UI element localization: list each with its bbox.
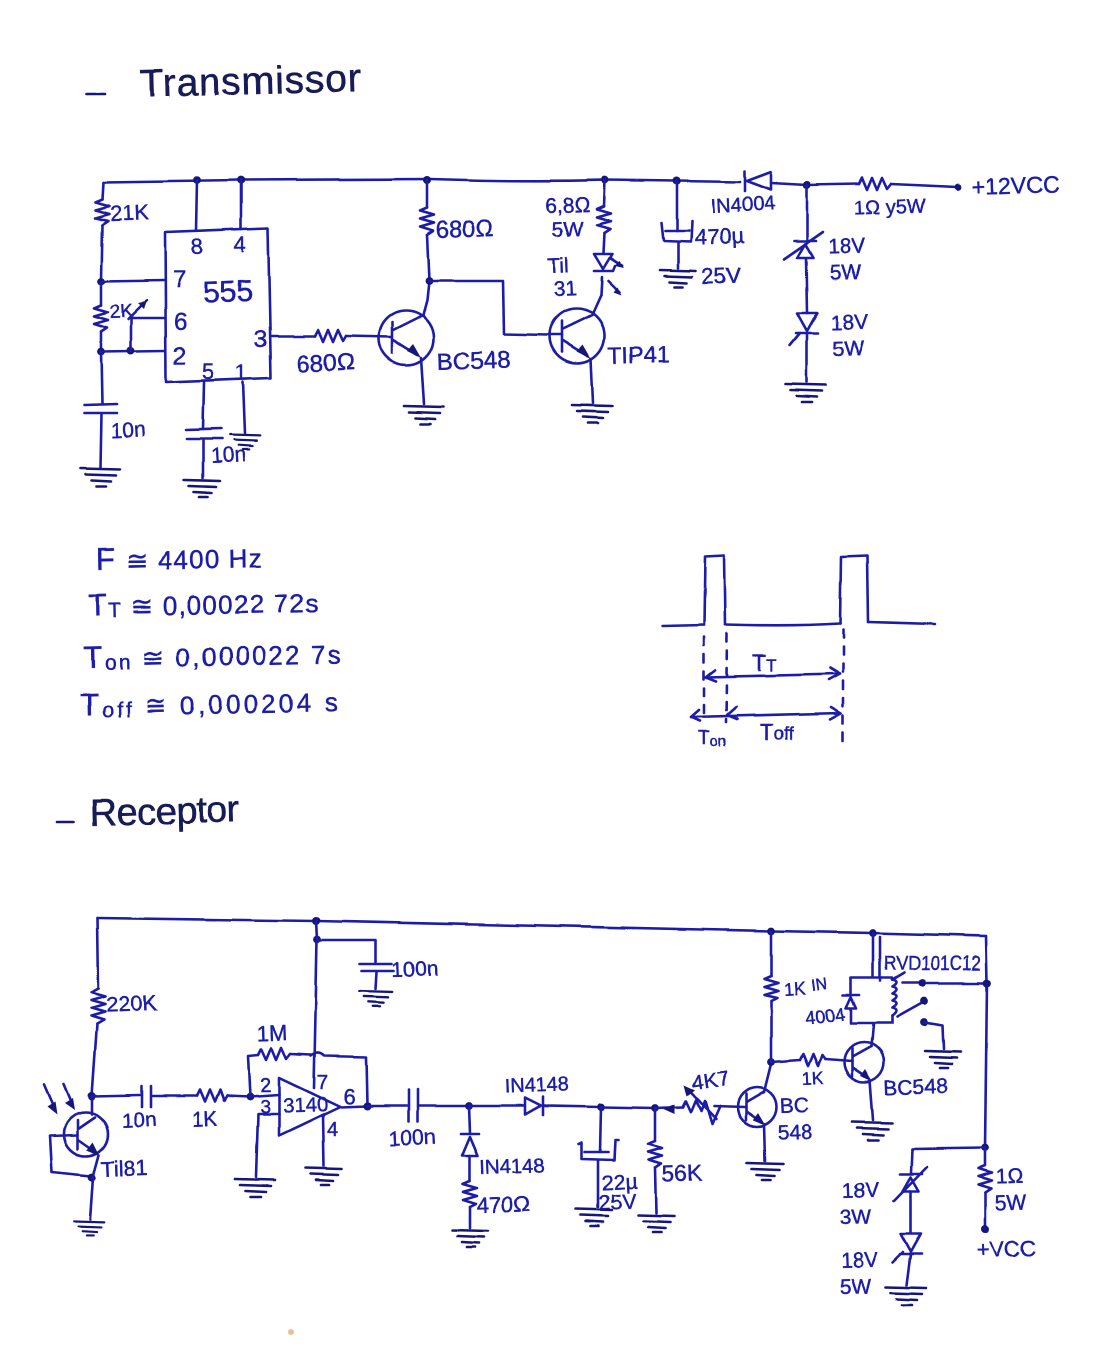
resistor R14 1K horizontal <box>800 1054 825 1066</box>
ground zener chain <box>786 384 826 402</box>
wire D3 node down <box>469 1106 470 1133</box>
wire R8 to pin2 node <box>227 1096 250 1097</box>
svg-text:10n: 10n <box>121 1108 157 1133</box>
svg-text:F ≅ 4400 Hz: F ≅ 4400 Hz <box>96 539 264 577</box>
capacitor C8 22u <box>579 1140 618 1160</box>
svg-text:18V: 18V <box>841 1179 879 1203</box>
formula F <box>96 539 264 577</box>
wire pin3 out <box>271 335 315 338</box>
label IN4148 D4 <box>504 1074 569 1098</box>
wire C1 to ground <box>100 414 101 467</box>
svg-text:Til81: Til81 <box>100 1155 148 1182</box>
pin 1 label <box>235 360 247 385</box>
node 6.8ohm rail junction <box>601 176 609 184</box>
wire C3 to ground <box>677 242 680 268</box>
ground Q4 <box>747 1163 783 1180</box>
svg-text:18V: 18V <box>830 311 868 335</box>
wire 220K to input node <box>92 1024 97 1096</box>
resistor R4 680 collector <box>420 208 434 235</box>
capacitor C7 100n <box>408 1090 417 1122</box>
label Toff waveform <box>760 719 795 745</box>
ground C8 <box>576 1209 612 1226</box>
wire C2 to ground <box>202 440 205 478</box>
svg-text:6: 6 <box>174 309 187 336</box>
wire opamp output <box>340 1106 367 1107</box>
wire pin2 <box>101 351 165 352</box>
node zener rail junction <box>803 181 811 189</box>
label 3140 <box>282 1093 328 1118</box>
wire R4 to collector node <box>427 235 429 281</box>
svg-text:555: 555 <box>202 275 253 310</box>
label 548 Q4 <box>777 1121 813 1145</box>
LED D1 Til31 <box>594 254 615 271</box>
light arrows Til81 <box>44 1084 75 1115</box>
formula Toff <box>80 683 342 723</box>
svg-text:21K: 21K <box>109 200 149 226</box>
pin 7 label <box>173 266 186 293</box>
ground C2 <box>184 480 220 497</box>
svg-text:7: 7 <box>317 1072 328 1094</box>
node pin6 link junction <box>127 347 135 355</box>
wire input node to C5 <box>92 1095 140 1096</box>
resistor 2K trimmer <box>94 305 108 332</box>
node rail 100n junction <box>313 935 321 943</box>
svg-text:Receptor: Receptor <box>89 789 240 835</box>
label BC Q4 <box>779 1094 809 1118</box>
wire Q2 emitter down <box>591 359 593 403</box>
svg-text:IN4148: IN4148 <box>504 1074 569 1098</box>
svg-text:3: 3 <box>254 326 267 353</box>
wire R13 to collector node <box>770 1001 773 1062</box>
label 18V z1 <box>827 235 865 259</box>
wire pot to Q4 base <box>714 1106 745 1107</box>
svg-text:548: 548 <box>777 1121 813 1145</box>
label 18V z3 <box>841 1179 879 1203</box>
opamp pin 3 label <box>260 1097 270 1117</box>
wire z4 to ground <box>907 1254 911 1285</box>
label 25V c3 <box>701 263 741 289</box>
wire D3 to R10 <box>469 1156 472 1181</box>
svg-text:IN: IN <box>810 976 828 995</box>
svg-text:25V: 25V <box>598 1190 637 1215</box>
node pin8 rail junction <box>193 176 201 184</box>
label 4004 relay diode <box>804 1004 846 1028</box>
wire Q1 emitter down <box>421 358 424 404</box>
svg-text:BC548: BC548 <box>436 346 510 376</box>
label 470u <box>694 223 745 250</box>
label 680ohm collector <box>435 215 494 244</box>
wire 56K down <box>654 1108 657 1141</box>
wire z1 to z2 <box>806 259 807 313</box>
ground C6 <box>360 991 392 1006</box>
svg-text:680Ω: 680Ω <box>296 349 355 378</box>
capacitor C1 10n <box>84 404 117 413</box>
label BC548 Q1 <box>436 346 510 376</box>
wire C6 to ground <box>376 972 377 989</box>
label 5W R15 <box>994 1191 1026 1215</box>
transistor Q2 TIP41 <box>548 309 605 364</box>
dashed marker pulse2 <box>842 630 845 742</box>
wire z3 to z4 <box>910 1191 913 1233</box>
svg-text:BC548: BC548 <box>883 1075 948 1100</box>
svg-text:18V: 18V <box>827 235 865 259</box>
pin 4 label <box>234 232 246 257</box>
wire collector node to Q2 base <box>429 281 548 335</box>
wire 21K to pin7 node <box>101 225 102 281</box>
node +VCC <box>981 1225 989 1233</box>
arrow line Ton Toff <box>691 707 841 721</box>
wire +12V top rail <box>103 179 957 187</box>
svg-text:TT ≅ 0,00022 72s: TT ≅ 0,00022 72s <box>88 584 321 623</box>
wire Q4 collector up <box>764 1064 771 1092</box>
ground pin3 <box>235 1179 275 1197</box>
node rail relay junction <box>869 929 877 937</box>
wire 1M to vertical <box>290 1054 311 1055</box>
svg-text:4K7: 4K7 <box>690 1067 730 1095</box>
dashed marker right pulse1 <box>726 634 727 722</box>
ground Q1 <box>404 406 444 424</box>
wire pin1 down <box>243 382 245 434</box>
label 470ohm <box>476 1191 530 1218</box>
formula Ton <box>84 635 344 675</box>
label IN relay diode <box>810 976 828 995</box>
wire pin6 link <box>131 318 165 351</box>
label 1K R13 <box>783 979 806 1000</box>
SECTION: waveform <box>0 0 1 1</box>
IC U1 555 body <box>165 228 271 382</box>
svg-text:1K: 1K <box>801 1068 824 1089</box>
svg-text:5W: 5W <box>832 337 864 361</box>
label +12VCC <box>971 171 1059 200</box>
label 4K7 <box>690 1067 730 1095</box>
svg-text:5W: 5W <box>829 261 861 285</box>
label 1ohm y5W <box>853 195 926 220</box>
pot wiper arrow <box>684 1085 716 1119</box>
node contact A <box>918 979 926 987</box>
pin 6 label <box>174 309 187 336</box>
svg-text:TT: TT <box>752 650 776 676</box>
svg-text:10n: 10n <box>110 418 146 443</box>
label 56K <box>661 1160 703 1187</box>
relay switch arm <box>897 1003 922 1017</box>
wire opamp supply vertical <box>314 921 317 1088</box>
svg-text:4: 4 <box>327 1119 338 1141</box>
phototransistor Q3 Til81 <box>64 1096 108 1156</box>
ground pin1 <box>230 435 261 449</box>
op-amp U2 3140 <box>279 1078 340 1136</box>
svg-text:31: 31 <box>553 277 577 301</box>
label 25V c8 <box>598 1190 637 1215</box>
ground contact C <box>925 1051 961 1068</box>
label 2K <box>109 301 134 323</box>
wire D3 node to D4 <box>469 1105 524 1108</box>
svg-text:2: 2 <box>173 343 186 370</box>
svg-text:3W: 3W <box>839 1206 871 1230</box>
SECTION: formulas <box>80 539 344 723</box>
resistor R9 1M <box>258 1048 290 1060</box>
node input junction <box>88 1092 96 1100</box>
SECTION: receiver <box>44 917 1037 1305</box>
svg-text:8: 8 <box>191 234 203 259</box>
resistor R7 220K <box>91 988 105 1024</box>
label Ton waveform <box>698 728 726 750</box>
svg-text:7: 7 <box>173 266 186 293</box>
ground Q2 <box>572 405 612 423</box>
node contact C <box>920 1018 928 1026</box>
wire Q5 emitter down <box>870 1080 873 1120</box>
svg-text:18V: 18V <box>840 1249 878 1273</box>
node Q4 collector junction <box>767 1058 775 1066</box>
svg-text:56K: 56K <box>661 1160 703 1187</box>
label 22u <box>601 1170 638 1195</box>
svg-text:4004: 4004 <box>804 1004 846 1028</box>
wire C8 to ground <box>597 1160 600 1207</box>
label 1K R14 <box>801 1068 824 1089</box>
wire R14 to Q5 base <box>825 1059 852 1061</box>
relay label box <box>880 937 987 983</box>
diode D3 IN4148 vertical <box>461 1134 479 1156</box>
svg-text:+VCC: +VCC <box>976 1235 1036 1262</box>
svg-text:680Ω: 680Ω <box>435 215 494 244</box>
wire R3 to Q1 base <box>346 336 391 337</box>
label 5W z2 <box>832 337 864 361</box>
wire 56K node to pot <box>655 1107 683 1108</box>
Til81 base loop <box>50 1135 91 1176</box>
wire pin2 node down to C1 <box>101 352 102 404</box>
wire zener branch down <box>806 185 809 240</box>
opamp pin 6 label <box>343 1084 355 1109</box>
ground C1 <box>80 468 120 486</box>
SECTION: waveform <box>57 555 935 835</box>
wire pin2 stub <box>250 1095 279 1097</box>
svg-text:1K: 1K <box>783 979 806 1000</box>
wire 1M feedback left <box>248 1055 258 1097</box>
label Til81 <box>100 1155 148 1182</box>
wire output to C7 <box>367 1105 406 1108</box>
wire rail to 6.8ohm <box>604 180 605 206</box>
svg-text:2: 2 <box>260 1075 271 1097</box>
wire pin3 to ground <box>256 1114 279 1177</box>
transistor Q5 BC548 <box>844 1042 884 1082</box>
wire R10 to ground <box>469 1207 472 1228</box>
wire receiver left vertical upper <box>97 918 98 988</box>
zener Z2 18V 5W <box>790 313 818 345</box>
svg-text:1K: 1K <box>191 1108 218 1132</box>
node +12VCC end <box>955 184 962 191</box>
label TT waveform <box>752 650 776 676</box>
node rail opamp junction <box>312 917 320 925</box>
node contact B <box>920 997 928 1005</box>
diode D4 IN4148 horizontal <box>525 1097 543 1115</box>
title Transmissor <box>139 57 362 106</box>
label 10n C2 <box>210 443 246 468</box>
node pin2 junction <box>97 348 105 356</box>
label 1M <box>256 1020 287 1046</box>
label 100n C7 <box>388 1126 436 1151</box>
wire receiver right vertical <box>985 936 987 1148</box>
resistor R5 6.8ohm 5W <box>597 206 611 233</box>
wire R11 to ground <box>655 1168 656 1213</box>
label 18V z4 <box>840 1249 878 1273</box>
wire Q2 collector to LED <box>592 277 602 315</box>
node pin2 opamp junction <box>246 1093 254 1101</box>
wire Q5 collector to relay coil <box>871 1024 873 1046</box>
svg-text:25V: 25V <box>701 263 741 289</box>
trimmer arrow 2K <box>128 300 147 319</box>
node Q1 collector junction <box>425 277 433 285</box>
svg-text:5W: 5W <box>551 218 583 242</box>
ground R11 <box>638 1215 674 1232</box>
label 18V z2 <box>830 311 868 335</box>
pin 3 label <box>254 326 267 353</box>
opamp pin 2 label <box>260 1075 271 1097</box>
svg-text:IN4148: IN4148 <box>479 1155 544 1179</box>
svg-text:Transmissor: Transmissor <box>139 57 362 106</box>
svg-text:TIP41: TIP41 <box>608 341 670 368</box>
dashed marker left pulse1 <box>703 637 706 718</box>
wire collector node to R14 <box>771 1060 800 1062</box>
svg-text:RVD101C12: RVD101C12 <box>884 953 981 975</box>
wire zener top horizontal <box>912 1148 985 1149</box>
svg-text:IN4004: IN4004 <box>710 193 776 218</box>
svg-text:220K: 220K <box>105 990 158 1017</box>
wire pin8 stub <box>196 180 197 230</box>
svg-text:6,8Ω: 6,8Ω <box>544 193 590 218</box>
label 5W z4 <box>839 1275 871 1299</box>
pin 8 label <box>191 234 203 259</box>
wire pin7 <box>101 280 165 281</box>
resistor R3 680 base <box>315 330 346 342</box>
wire output loop top <box>311 1053 367 1105</box>
svg-text:4: 4 <box>234 232 246 257</box>
arrow line TT <box>706 668 840 681</box>
svg-text:470Ω: 470Ω <box>476 1191 530 1218</box>
wire pin5 down <box>203 382 204 429</box>
node 56K junction <box>651 1104 659 1112</box>
transistor Q4 BC548 <box>738 1088 777 1127</box>
resistor R10 470ohm <box>463 1181 477 1207</box>
svg-text:5: 5 <box>202 359 214 384</box>
node 1ohm top junction <box>981 1144 989 1152</box>
LED light arrows <box>608 258 624 295</box>
label 21K <box>109 200 149 226</box>
ground Q5 <box>852 1122 892 1140</box>
waveform pulse 2 <box>840 556 868 624</box>
wire pin4 stub <box>240 180 243 229</box>
wire 2K to pin2 node <box>100 332 103 352</box>
wire Q4 emitter down <box>764 1124 765 1161</box>
capacitor C6 100n bypass <box>360 964 394 971</box>
label IN4148 D3 <box>479 1155 544 1179</box>
node Til81 emitter junction <box>88 1173 96 1181</box>
wire left branch upper <box>102 182 103 199</box>
label 1K R8 <box>191 1108 218 1132</box>
label BC548 Q5 <box>883 1075 948 1100</box>
wire C8 down <box>600 1107 601 1152</box>
svg-text:BC: BC <box>779 1094 809 1118</box>
wire contact C to ground <box>924 1022 944 1049</box>
ground Til81 <box>74 1221 105 1235</box>
waveform baseline <box>662 622 935 626</box>
wire 100n bypass stub <box>317 940 376 962</box>
svg-text:470µ: 470µ <box>694 223 745 250</box>
node output junction <box>363 1102 371 1110</box>
relay K1 coil box <box>851 978 896 1023</box>
wire rail to 1K vertical <box>770 931 773 976</box>
potentiometer R12 4K7 <box>683 1100 720 1124</box>
svg-text:3140: 3140 <box>282 1093 328 1118</box>
svg-text:1M: 1M <box>256 1020 287 1046</box>
node right rail contact junction <box>983 979 991 987</box>
svg-text:Til: Til <box>547 254 569 278</box>
resistor 21K <box>95 199 109 225</box>
label 3W z3 <box>839 1206 871 1230</box>
label +VCC <box>976 1235 1036 1262</box>
diode D2 IN4004 <box>745 171 771 191</box>
wire relay feed vertical <box>872 933 875 977</box>
node 680ohm rail junction <box>423 176 431 184</box>
relay contact stub <box>894 973 904 979</box>
ground C3 <box>660 270 696 287</box>
wire pin4 to ground <box>323 1116 324 1166</box>
svg-text:Ton ≅ 0,000022 7s: Ton ≅ 0,000022 7s <box>84 635 344 675</box>
label RVD101C12 <box>884 953 981 975</box>
svg-text:100n: 100n <box>391 957 438 982</box>
wire C7 to D3 node <box>418 1105 469 1108</box>
zener Z4 18V <box>893 1234 922 1262</box>
resistor R6 1ohm 5W <box>859 178 891 190</box>
formula TT <box>88 584 321 623</box>
title Receptor dash <box>57 821 74 824</box>
waveform pulse 1 <box>704 555 725 625</box>
wire R5 to LED <box>603 233 604 253</box>
paper speck <box>288 1329 294 1335</box>
wire node to 2K <box>100 281 103 305</box>
node D3 junction <box>465 1102 473 1110</box>
label 31 <box>553 277 577 301</box>
resistor R15 1ohm 5W <box>978 1148 992 1193</box>
wire C5 to R8 <box>152 1095 197 1098</box>
resistor R8 1K <box>197 1090 227 1102</box>
resistor R13 1K vertical <box>764 976 778 1001</box>
node pin4 rail junction <box>237 176 245 184</box>
SECTION: transmitter <box>80 57 1060 497</box>
label 1ohm R15 <box>995 1165 1024 1189</box>
title Transmissor dash <box>87 93 105 96</box>
svg-text:Toff: Toff <box>760 719 795 745</box>
capacitor C5 10n <box>142 1086 151 1107</box>
svg-text:100n: 100n <box>388 1126 436 1151</box>
resistor R11 56K <box>648 1141 662 1168</box>
label 5W z1 <box>829 261 861 285</box>
ground zener z4 <box>886 1287 926 1305</box>
svg-text:1: 1 <box>235 360 247 385</box>
ground pin4 <box>306 1168 342 1185</box>
capacitor C3 470u wire from rail <box>676 181 679 231</box>
svg-text:1Ω y5W: 1Ω y5W <box>853 195 926 220</box>
label 5W r5 <box>551 218 583 242</box>
title Receptor <box>89 789 240 835</box>
pot wiper arrowhead on wire <box>664 1104 675 1114</box>
wire C8 node to 56K node <box>601 1107 655 1108</box>
svg-text:10n: 10n <box>210 443 246 468</box>
wire receiver top rail <box>97 918 986 936</box>
svg-text:Ton: Ton <box>698 728 726 750</box>
svg-text:5W: 5W <box>994 1191 1026 1215</box>
label 6,8ohm <box>544 193 590 218</box>
wire z2 to ground <box>806 334 809 382</box>
label 220K <box>105 990 158 1017</box>
